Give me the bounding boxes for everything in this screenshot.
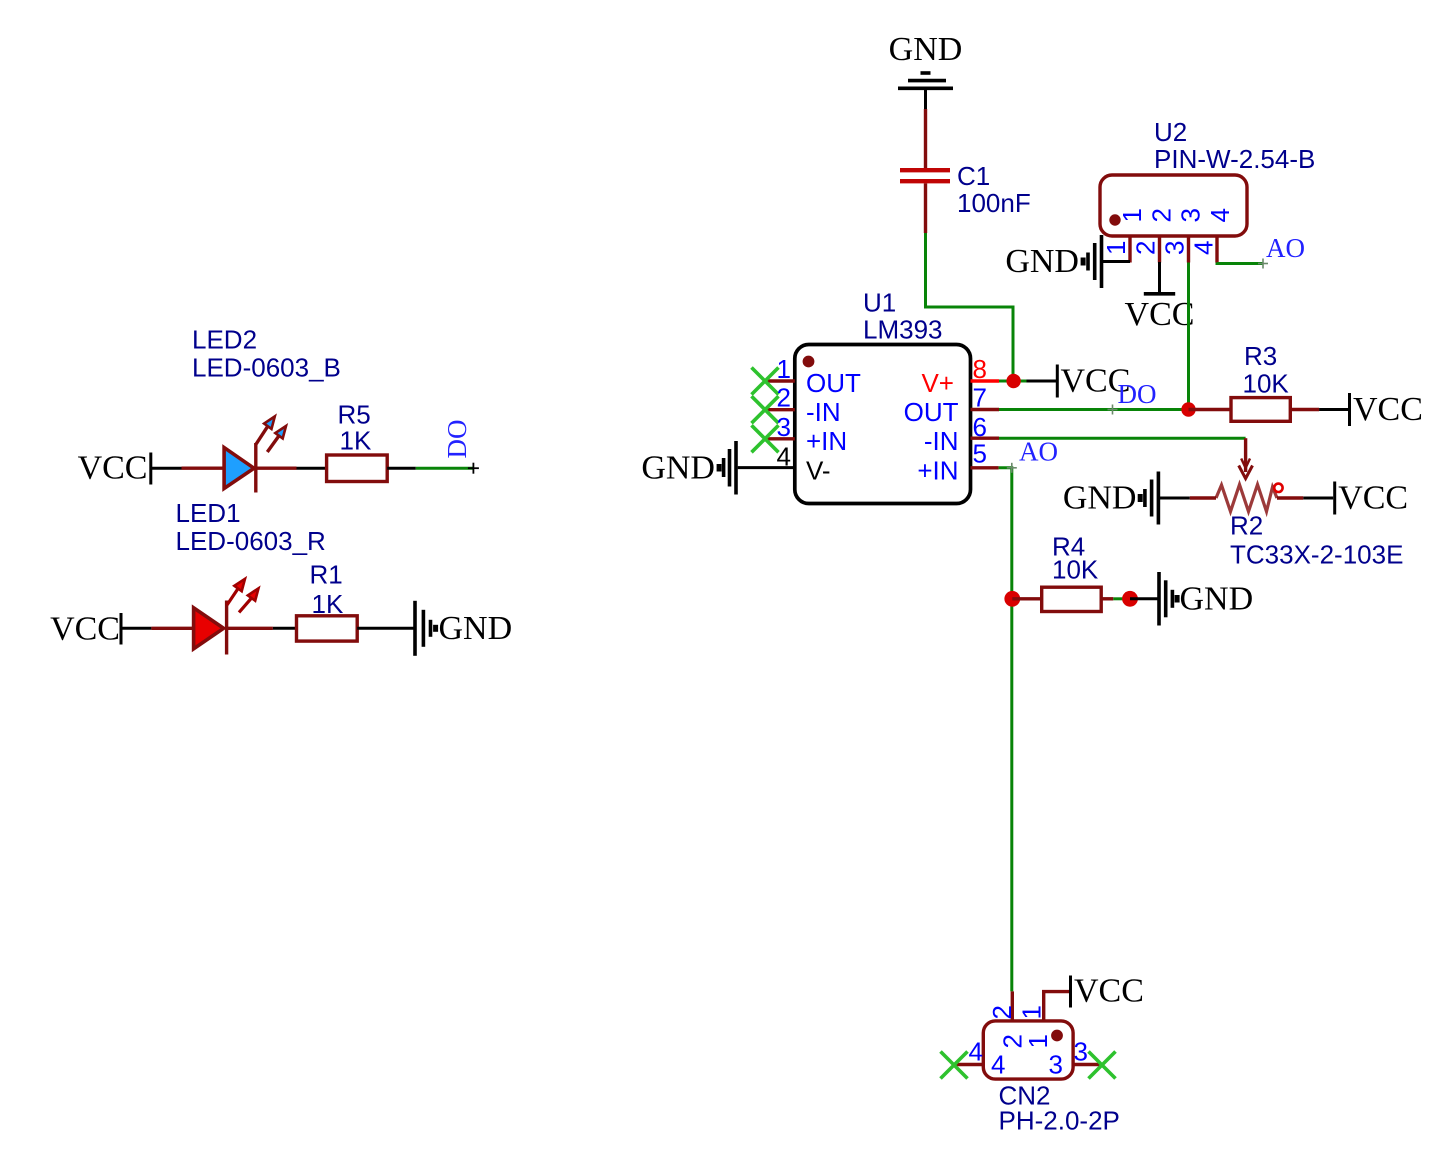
svg-text:DO: DO <box>1118 379 1157 409</box>
power VCC at LED1 <box>50 611 121 648</box>
svg-text:3: 3 <box>1074 1037 1088 1067</box>
svg-text:4: 4 <box>969 1037 983 1067</box>
svg-text:1K: 1K <box>340 426 372 456</box>
svg-text:1: 1 <box>1023 1034 1053 1048</box>
wire LED2 to R5 <box>256 467 327 470</box>
wire GND to C1 (black then dark red) <box>924 88 927 168</box>
svg-text:OUT: OUT <box>806 368 861 398</box>
wire R1 to GND <box>357 627 414 630</box>
wire U1 pin7 DO net (green) <box>999 405 1189 415</box>
wire U1 pin4 to ground (black) <box>738 466 795 469</box>
U1 pin 3 stub <box>764 437 795 440</box>
svg-text:4: 4 <box>991 1050 1005 1080</box>
svg-text:VCC: VCC <box>1125 296 1195 333</box>
ground GND at U2 pin1 <box>1005 235 1101 288</box>
resistor R3 10K <box>1231 341 1290 421</box>
LED2 (blue LED) <box>224 416 286 492</box>
svg-text:2: 2 <box>987 1005 1017 1019</box>
ground GND (top, above C1) <box>889 31 963 88</box>
power VCC at U1 pin8 <box>1057 363 1130 400</box>
ground GND at R1 <box>415 601 512 656</box>
CN2 pin 3 stub <box>1073 1063 1101 1066</box>
wire U2 pin4 to AO flag (green) <box>1217 259 1268 269</box>
svg-text:3: 3 <box>1049 1050 1063 1080</box>
svg-text:100nF: 100nF <box>957 188 1031 218</box>
wire pin8 to VCC (black) <box>1027 380 1057 383</box>
wire DO node to R3 <box>1189 408 1232 411</box>
no-connect X pin2 <box>752 396 779 423</box>
svg-text:10K: 10K <box>1243 369 1290 399</box>
svg-text:3: 3 <box>1176 208 1206 222</box>
svg-text:AO: AO <box>1019 437 1058 467</box>
component U2 PIN-W-2.54-B <box>1100 117 1315 263</box>
svg-text:-IN: -IN <box>806 397 841 427</box>
resistor R1 1K <box>297 560 358 642</box>
svg-text:GND: GND <box>1005 243 1079 280</box>
svg-text:1: 1 <box>1117 208 1147 222</box>
wire U1 pin5 to AO net (green, down to CN2) <box>999 463 1017 992</box>
U1 pin 8 stub (red) <box>971 379 1000 382</box>
no-connect X pin3 <box>752 425 779 452</box>
svg-text:1: 1 <box>777 354 791 384</box>
LED2 emission arrow 1 <box>256 426 268 445</box>
connector CN2 PH-2.0-2P <box>941 991 1120 1135</box>
LED1 labels <box>176 498 326 556</box>
svg-text:C1: C1 <box>957 161 990 191</box>
power VCC at CN2 pin1 <box>1071 973 1144 1010</box>
svg-text:PH-2.0-2P: PH-2.0-2P <box>999 1106 1120 1136</box>
LED2 emission arrow 2 <box>267 436 279 452</box>
wire R5 to DO flag <box>387 463 479 474</box>
svg-text:2: 2 <box>1147 208 1177 222</box>
U1 pin 5 stub <box>971 466 999 469</box>
U1 pin 6 stub <box>971 437 1000 440</box>
junction node V+ <box>1006 374 1020 388</box>
U1 pin 1 stub <box>764 379 795 382</box>
wire VCC to LED2 <box>151 467 224 470</box>
svg-text:GND: GND <box>889 31 963 68</box>
ground GND at U1 pin4 <box>641 441 736 495</box>
svg-text:VCC: VCC <box>1074 973 1144 1010</box>
U2 pin 3 stub <box>1187 236 1190 263</box>
svg-text:VCC: VCC <box>50 611 120 648</box>
wire C1 to V+ node (green) <box>926 233 1014 381</box>
svg-text:1: 1 <box>1017 1005 1047 1019</box>
junction node R4 left <box>1004 591 1020 607</box>
wire U2 pin3 to DO node (green vertical) <box>1187 263 1190 410</box>
svg-text:GND: GND <box>1063 480 1137 517</box>
svg-text:R2: R2 <box>1230 511 1263 541</box>
svg-text:R3: R3 <box>1244 341 1277 371</box>
op-amp U1 LM393 <box>752 288 1000 504</box>
wire U1 pin6 to R2 wiper (green) <box>999 437 1246 440</box>
wire node to GND bars (black) <box>1130 597 1159 600</box>
svg-text:+IN: +IN <box>806 426 847 456</box>
svg-text:4: 4 <box>1189 241 1219 255</box>
U2 pin 2 stub <box>1158 236 1161 263</box>
wire R4 to GND <box>1101 597 1123 600</box>
wire LED1 to R1 <box>227 627 297 630</box>
svg-text:2: 2 <box>777 383 791 413</box>
svg-text:V-: V- <box>806 455 831 485</box>
wire pin8 green segments <box>999 380 1027 383</box>
wire VCC to LED1 <box>121 627 194 630</box>
ground GND at R4 <box>1159 572 1253 626</box>
power VCC at R3 <box>1350 391 1423 428</box>
potentiometer R2 zigzag <box>1216 484 1403 570</box>
wire R2 right to VCC <box>1277 496 1333 499</box>
svg-text:GND: GND <box>641 450 715 487</box>
svg-text:U2: U2 <box>1154 117 1187 147</box>
wire R3 to VCC <box>1290 408 1348 411</box>
svg-text:LED-0603_B: LED-0603_B <box>192 353 341 383</box>
LED1 emission arrow 1 <box>227 589 238 605</box>
svg-text:OUT: OUT <box>904 397 959 427</box>
CN2 pin 1 wire to VCC <box>1044 992 1069 1021</box>
svg-text:5: 5 <box>973 439 987 469</box>
ground GND at R2 <box>1063 472 1159 525</box>
svg-text:GND: GND <box>1180 581 1254 618</box>
svg-text:4: 4 <box>1205 208 1235 222</box>
svg-text:LED2: LED2 <box>192 325 257 355</box>
svg-text:3: 3 <box>777 412 791 442</box>
no-connect X CN2 pin3 <box>1089 1052 1116 1079</box>
U2 pin 1 stub <box>1128 236 1131 263</box>
wire node to R4 <box>1012 597 1041 600</box>
junction node DO <box>1181 402 1195 416</box>
svg-text:LED1: LED1 <box>176 498 241 528</box>
svg-text:VCC: VCC <box>1338 480 1408 517</box>
svg-text:2: 2 <box>1131 241 1161 255</box>
svg-text:PIN-W-2.54-B: PIN-W-2.54-B <box>1154 144 1315 174</box>
svg-text:LM393: LM393 <box>863 315 943 345</box>
svg-text:AO: AO <box>1266 233 1305 263</box>
power VCC at U2 pin2 <box>1125 262 1195 333</box>
CN2 pin 2 stub <box>1011 991 1014 1021</box>
svg-text:LED-0603_R: LED-0603_R <box>176 526 326 556</box>
resistor R4 10K <box>1042 532 1102 612</box>
svg-text:DO: DO <box>442 420 472 459</box>
svg-text:10K: 10K <box>1052 555 1099 585</box>
power VCC at LED2 <box>78 450 151 487</box>
power VCC at R2 <box>1335 480 1408 517</box>
U1 pin 2 stub <box>764 408 795 411</box>
svg-text:VCC: VCC <box>78 450 148 487</box>
svg-text:V+: V+ <box>921 368 954 398</box>
LED1 emission arrow 2 <box>239 598 252 612</box>
svg-text:1: 1 <box>1101 241 1131 255</box>
svg-text:TC33X-2-103E: TC33X-2-103E <box>1230 540 1403 570</box>
LED1 (red LED) <box>194 579 259 655</box>
wire U2 pin1 to ground (black) <box>1103 260 1130 263</box>
svg-text:VCC: VCC <box>1353 391 1423 428</box>
U2 pin 4 stub <box>1215 236 1218 263</box>
no-connect X pin1 <box>752 368 779 395</box>
svg-text:-IN: -IN <box>924 426 959 456</box>
svg-text:U1: U1 <box>863 288 896 318</box>
resistor R5 1K <box>327 400 388 482</box>
no-connect X CN2 pin4 <box>941 1052 968 1079</box>
R2 wiper arrow <box>1239 438 1253 478</box>
capacitor C1 <box>900 161 1031 233</box>
U1 pin 7 stub <box>971 408 1000 411</box>
svg-text:GND: GND <box>439 610 513 647</box>
CN2 pin 4 stub <box>955 1063 983 1066</box>
wire GND to R2 left <box>1160 497 1216 500</box>
LED2 labels <box>192 325 341 383</box>
svg-text:+IN: +IN <box>917 455 958 485</box>
svg-text:R1: R1 <box>310 560 343 590</box>
svg-text:3: 3 <box>1160 241 1190 255</box>
junction node R4 right <box>1122 591 1138 607</box>
